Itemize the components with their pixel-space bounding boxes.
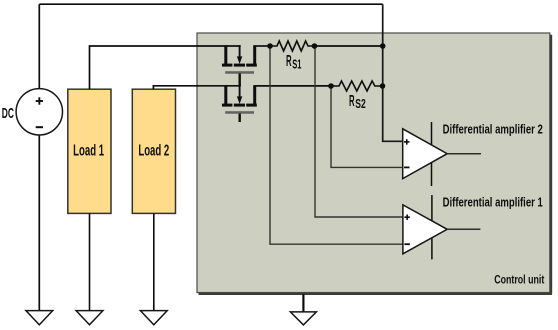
wire Load1 top riser + row1 feed <box>90 46 241 89</box>
svg-text:Control unit: Control unit <box>494 273 544 287</box>
ground GND3 (Load2) <box>140 311 167 325</box>
wire Load1 bottom to ground <box>89 213 91 310</box>
ground GND4 (control unit) <box>290 312 316 325</box>
svg-text:Load 1: Load 1 <box>73 141 104 159</box>
load LOAD1 <box>68 89 111 213</box>
svg-text:R: R <box>349 92 355 110</box>
label RS1 <box>286 52 301 72</box>
resistor RS2 <box>331 81 383 91</box>
op-amp U1 (Differential amplifier 1) <box>403 195 481 259</box>
node C junction <box>328 83 334 89</box>
svg-text:S1: S1 <box>292 57 301 72</box>
wire sense line B (to amp1 +) <box>315 46 403 217</box>
wire sense line C (to amp2 -) <box>331 86 403 167</box>
op-amp U2 (Differential amplifier 2) <box>403 122 481 186</box>
svg-text:R: R <box>286 52 292 70</box>
wire Load2 top riser + row2 feed <box>153 86 240 89</box>
node D junction <box>380 43 386 49</box>
wire Load2 bottom to ground <box>153 213 155 310</box>
DC source V1 <box>16 89 62 135</box>
wire node B to node D <box>315 45 383 47</box>
wire DC bottom to ground <box>38 135 40 311</box>
svg-text:S2: S2 <box>355 97 365 111</box>
ground GND1 (DC) <box>26 311 53 325</box>
wire control unit ground stub <box>302 294 304 312</box>
wire sense line D (to amp2 +) <box>383 4 403 141</box>
load LOAD2 <box>132 89 175 213</box>
svg-text:DC: DC <box>2 104 14 121</box>
transistor Q1 (upper MOSFET) <box>222 45 257 86</box>
label RS2 <box>349 92 366 111</box>
resistor RS1 <box>270 41 315 51</box>
wire DC top riser <box>38 4 40 88</box>
wire Q2 source to node C <box>255 85 331 87</box>
control unit box U-CTRL <box>197 33 552 294</box>
wire top bus from DC+ <box>39 3 382 5</box>
wire Q1 source to node A <box>255 45 270 47</box>
node B junction <box>312 43 318 49</box>
node A junction <box>267 43 273 49</box>
svg-text:Differential amplifier 2: Differential amplifier 2 <box>443 123 543 137</box>
svg-text:Differential amplifier 1: Differential amplifier 1 <box>443 196 544 210</box>
node E junction <box>380 83 386 89</box>
svg-text:Load 2: Load 2 <box>138 141 169 159</box>
wire sense line A (to amp1 -) <box>270 46 403 244</box>
ground GND2 (Load1) <box>76 311 103 325</box>
transistor Q2 (lower MOSFET) <box>222 85 257 122</box>
